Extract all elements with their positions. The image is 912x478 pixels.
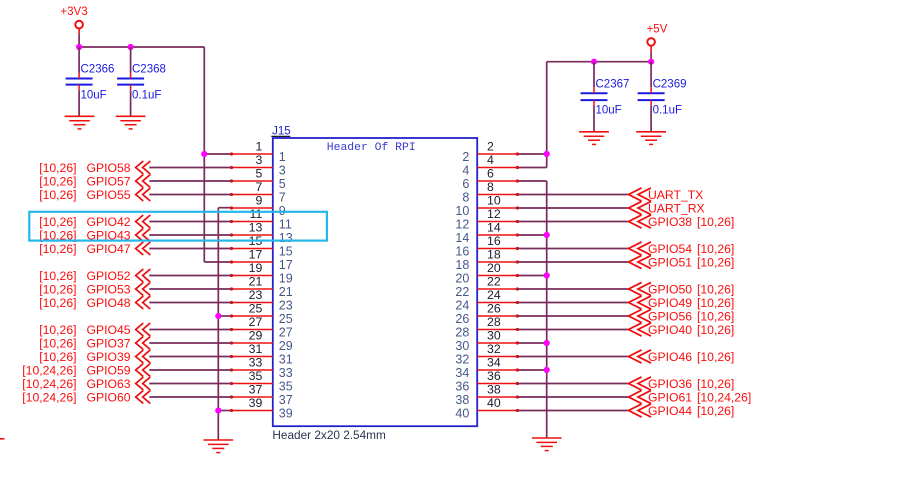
wire net GPIO39 to pin 31 (149, 356, 231, 358)
off-page connector UART_RX (right) (629, 201, 705, 215)
off-page connector GPIO44 (right) (629, 404, 735, 418)
off-page connector GPIO59 (left) (22, 363, 150, 377)
svg-text:13: 13 (279, 231, 293, 245)
svg-text:19: 19 (249, 261, 263, 275)
wire net GPIO45 to pin 27 (149, 329, 231, 331)
pin 31 (left stub) (230, 342, 293, 366)
pin 14 (right stub) (455, 221, 519, 245)
wire right GND bus vertical (546, 181, 548, 438)
wire net GPIO49 to pin 24 (517, 302, 628, 304)
off-page connector GPIO42 (left) (39, 215, 150, 229)
pin 12 (right stub) (455, 207, 519, 231)
wire 3V3 to pin 1 (204, 153, 231, 155)
svg-text:22: 22 (487, 275, 501, 289)
off-page connector GPIO56 (right) (629, 309, 735, 323)
svg-text:GPIO36: GPIO36 (648, 377, 692, 391)
wire net GPIO47 to pin 15 (149, 248, 231, 250)
wire net GPIO50 to pin 22 (517, 288, 628, 290)
svg-text:C2369: C2369 (653, 78, 687, 90)
pin 13 (left stub) (230, 221, 293, 245)
svg-text:GPIO45: GPIO45 (87, 323, 131, 337)
wire net GPIO53 to pin 21 (149, 288, 231, 290)
svg-text:[10,26]: [10,26] (39, 161, 76, 175)
svg-text:6: 6 (487, 167, 494, 181)
off-page connector GPIO46 (right) (629, 350, 735, 364)
svg-text:0.1uF: 0.1uF (653, 104, 682, 116)
svg-text:[10,26]: [10,26] (39, 350, 76, 364)
off-page connector GPIO45 (left) (39, 323, 150, 337)
svg-text:[10,26]: [10,26] (39, 336, 76, 350)
pin 15 (left stub) (230, 234, 293, 258)
connector J15 body (273, 138, 477, 426)
svg-text:0.1uF: 0.1uF (132, 90, 161, 102)
svg-text:GPIO58: GPIO58 (87, 161, 131, 175)
svg-text:[10,26]: [10,26] (697, 242, 734, 256)
svg-text:26: 26 (455, 312, 469, 326)
off-page connector GPIO61 (right) (629, 390, 752, 404)
svg-text:[10,26]: [10,26] (697, 282, 734, 296)
power symbol +5V (647, 24, 668, 53)
svg-text:[10,26]: [10,26] (39, 215, 76, 229)
junction 5V at pin 2 (544, 151, 550, 157)
wire left GND bus vertical (217, 208, 219, 440)
svg-text:4: 4 (487, 153, 494, 167)
svg-text:10uF: 10uF (81, 90, 107, 102)
svg-text:[10,26]: [10,26] (39, 323, 76, 337)
pin 17 (left stub) (230, 248, 293, 272)
svg-text:[10,26]: [10,26] (697, 215, 734, 229)
value Header 2x20 2.54mm (272, 428, 386, 442)
svg-text:GPIO49: GPIO49 (648, 296, 692, 310)
svg-text:19: 19 (279, 272, 293, 286)
pin 5 (left stub) (230, 167, 286, 191)
svg-text:10: 10 (455, 204, 469, 218)
svg-text:31: 31 (249, 342, 263, 356)
svg-text:12: 12 (455, 218, 469, 232)
pin 26 (right stub) (455, 302, 519, 326)
svg-text:GPIO57: GPIO57 (87, 174, 131, 188)
svg-text:GPIO48: GPIO48 (87, 296, 131, 310)
off-page connector GPIO36 (right) (629, 377, 735, 391)
pin 7 (left stub) (230, 180, 286, 204)
off-page connector GPIO55 (left) (39, 188, 150, 202)
wire net GPIO42 to pin 11 (149, 221, 231, 223)
svg-text:11: 11 (250, 207, 263, 221)
svg-text:8: 8 (462, 191, 469, 205)
svg-text:GPIO44: GPIO44 (648, 404, 692, 418)
ground right bus bottom (532, 438, 562, 451)
off-page connector GPIO60 (left) (22, 390, 150, 404)
svg-text:16: 16 (455, 245, 469, 259)
off-page connector GPIO58 (left) (39, 161, 150, 175)
pin 30 (right stub) (455, 329, 519, 353)
pin 27 (left stub) (230, 315, 293, 339)
wire net GPIO46 to pin 32 (517, 356, 628, 358)
svg-text:C2368: C2368 (132, 64, 166, 76)
svg-text:GPIO46: GPIO46 (648, 350, 692, 364)
svg-text:GPIO61: GPIO61 (648, 390, 692, 404)
junction right GND at pin 34 (544, 367, 550, 373)
pin 38 (right stub) (455, 383, 519, 407)
svg-text:13: 13 (249, 221, 263, 235)
svg-text:28: 28 (487, 315, 501, 329)
junction right GND at pin 30 (544, 340, 550, 346)
wire net GPIO63 to pin 35 (149, 383, 231, 385)
svg-text:20: 20 (487, 261, 501, 275)
wire right GND to pin 6 (517, 180, 546, 182)
junction right GND at pin 20 (544, 272, 550, 278)
svg-text:UART_RX: UART_RX (648, 201, 705, 215)
wire left GND to pin 25 (218, 315, 231, 317)
svg-text:[10,26]: [10,26] (39, 188, 76, 202)
ground below C2368 (116, 116, 146, 129)
svg-text:GPIO59: GPIO59 (87, 363, 131, 377)
svg-text:Header 2x20 2.54mm: Header 2x20 2.54mm (272, 428, 386, 442)
svg-text:22: 22 (455, 285, 469, 299)
svg-text:27: 27 (279, 326, 293, 340)
pin 16 (right stub) (455, 234, 519, 258)
wire net GPIO36 to pin 36 (517, 383, 628, 385)
svg-text:14: 14 (487, 221, 501, 235)
svg-text:[10,26]: [10,26] (697, 255, 734, 269)
pin 22 (right stub) (455, 275, 519, 299)
svg-text:GPIO50: GPIO50 (648, 282, 692, 296)
svg-text:39: 39 (279, 407, 293, 421)
svg-text:36: 36 (455, 380, 469, 394)
svg-text:5: 5 (255, 167, 262, 181)
pin 36 (right stub) (455, 369, 519, 393)
svg-text:4: 4 (462, 164, 469, 178)
red dash at left edge (0, 438, 5, 440)
svg-text:C2366: C2366 (81, 64, 115, 76)
svg-text:24: 24 (487, 288, 501, 302)
svg-text:+3V3: +3V3 (60, 6, 87, 18)
capacitor C2367 (581, 62, 630, 132)
ground below C2367 (579, 132, 609, 145)
off-page connector GPIO50 (right) (629, 282, 735, 296)
svg-text:C2367: C2367 (596, 78, 630, 90)
svg-text:GPIO55: GPIO55 (87, 188, 131, 202)
junction 3V3 at pin 1 (201, 151, 207, 157)
wire net GPIO55 to pin 7 (149, 194, 231, 196)
svg-text:24: 24 (455, 299, 469, 313)
svg-text:12: 12 (487, 207, 501, 221)
svg-text:GPIO53: GPIO53 (87, 282, 131, 296)
pin 40 (right stub) (455, 396, 519, 420)
svg-text:5: 5 (279, 177, 286, 191)
svg-text:GPIO42: GPIO42 (87, 215, 131, 229)
svg-text:3: 3 (279, 164, 286, 178)
pin 19 (left stub) (230, 261, 293, 285)
pin 18 (right stub) (455, 248, 519, 272)
svg-text:39: 39 (249, 396, 263, 410)
svg-text:[10,24,26]: [10,24,26] (22, 377, 76, 391)
svg-text:[10,26]: [10,26] (697, 377, 734, 391)
off-page connector GPIO49 (right) (629, 296, 735, 310)
off-page connector GPIO53 (left) (39, 282, 150, 296)
svg-text:29: 29 (249, 329, 263, 343)
svg-text:26: 26 (487, 302, 501, 316)
svg-text:1: 1 (279, 150, 286, 164)
svg-text:34: 34 (455, 366, 469, 380)
pin 29 (left stub) (230, 329, 293, 353)
svg-text:17: 17 (249, 248, 263, 262)
junction 3V3 at C2366 (76, 44, 82, 50)
svg-text:35: 35 (279, 380, 293, 394)
svg-text:7: 7 (279, 191, 286, 205)
wire net GPIO59 to pin 33 (149, 369, 231, 371)
svg-text:21: 21 (279, 285, 293, 299)
svg-text:[10,24,26]: [10,24,26] (697, 390, 751, 404)
pin 20 (right stub) (455, 261, 519, 285)
wire net GPIO58 to pin 3 (149, 167, 231, 169)
svg-text:40: 40 (487, 396, 501, 410)
wire net GPIO40 to pin 28 (517, 329, 628, 331)
off-page connector GPIO40 (right) (629, 323, 735, 337)
svg-text:10: 10 (487, 194, 501, 208)
pin 28 (right stub) (455, 315, 519, 339)
off-page connector GPIO51 (right) (629, 255, 735, 269)
off-page connector GPIO37 (left) (39, 336, 150, 350)
svg-text:GPIO39: GPIO39 (87, 350, 131, 364)
pin 37 (left stub) (230, 383, 293, 407)
svg-text:8: 8 (487, 180, 494, 194)
wire net UART_TX to pin 8 (517, 194, 628, 196)
selection highlight box (29, 212, 327, 241)
svg-text:[10,26]: [10,26] (39, 174, 76, 188)
pin 35 (left stub) (230, 369, 293, 393)
wire net GPIO43 to pin 13 (149, 234, 231, 236)
svg-text:[10,26]: [10,26] (697, 296, 734, 310)
svg-text:GPIO38: GPIO38 (648, 215, 692, 229)
svg-text:37: 37 (279, 393, 293, 407)
junction 5V at C2367 (591, 59, 597, 65)
svg-text:[10,26]: [10,26] (697, 323, 734, 337)
wire 5V rail horizontal (547, 61, 651, 63)
ground left bus bottom (203, 440, 233, 453)
svg-text:10uF: 10uF (596, 104, 622, 116)
wire net GPIO52 to pin 19 (149, 275, 231, 277)
svg-text:27: 27 (249, 315, 263, 329)
wire net GPIO38 to pin 12 (517, 221, 628, 223)
wire +3V3 drop (78, 34, 80, 47)
svg-text:6: 6 (462, 177, 469, 191)
off-page connector GPIO54 (right) (629, 242, 735, 256)
wire 5V to pin 4 (517, 167, 546, 169)
junction left GND at pin 39 (215, 407, 221, 413)
pin 21 (left stub) (230, 275, 293, 299)
capacitor C2366 (66, 47, 115, 116)
off-page connector GPIO38 (right) (629, 215, 735, 229)
wire net GPIO56 to pin 26 (517, 315, 628, 317)
off-page connector GPIO63 (left) (22, 377, 150, 391)
wire +5V drop (650, 53, 652, 62)
svg-text:[10,24,26]: [10,24,26] (22, 390, 76, 404)
svg-text:GPIO52: GPIO52 (87, 269, 131, 283)
wire 3V3 trunk vertical (203, 47, 205, 262)
wire 5V to pin 2 (517, 153, 546, 155)
svg-text:40: 40 (455, 407, 469, 421)
wire net GPIO44 to pin 40 (517, 410, 628, 412)
svg-text:31: 31 (279, 353, 293, 367)
pin 2 (right stub) (462, 140, 519, 164)
power symbol +3V3 (60, 6, 87, 34)
svg-text:25: 25 (249, 302, 263, 316)
pin 1 (left stub) (230, 140, 286, 164)
wire right GND to pin 14 (517, 234, 546, 236)
off-page connector GPIO47 (left) (39, 242, 150, 256)
svg-text:[10,26]: [10,26] (39, 269, 76, 283)
ground below C2366 (65, 116, 95, 129)
pin 24 (right stub) (455, 288, 519, 312)
pin 11 (left stub) (230, 207, 292, 231)
wire right GND to pin 30 (517, 342, 546, 344)
svg-text:33: 33 (249, 356, 263, 370)
svg-text:38: 38 (455, 393, 469, 407)
svg-text:11: 11 (279, 218, 292, 232)
svg-text:14: 14 (455, 231, 469, 245)
svg-text:2: 2 (462, 150, 469, 164)
svg-text:+5V: +5V (647, 24, 668, 36)
pin 6 (right stub) (462, 167, 519, 191)
wire net GPIO61 to pin 38 (517, 396, 628, 398)
svg-text:37: 37 (249, 383, 263, 397)
svg-text:UART_TX: UART_TX (648, 188, 703, 202)
off-page connector GPIO57 (left) (39, 174, 150, 188)
svg-text:35: 35 (249, 369, 263, 383)
svg-text:[10,26]: [10,26] (697, 350, 734, 364)
svg-text:18: 18 (487, 248, 501, 262)
svg-text:GPIO51: GPIO51 (648, 255, 692, 269)
capacitor C2369 (638, 62, 687, 132)
wire left GND to pin 39 (218, 410, 231, 412)
junction left GND at pin 25 (215, 313, 221, 319)
pin 8 (right stub) (462, 180, 519, 204)
ground below C2369 (636, 132, 666, 145)
wire net GPIO57 to pin 5 (149, 180, 231, 182)
svg-text:GPIO63: GPIO63 (87, 377, 131, 391)
svg-text:20: 20 (455, 272, 469, 286)
pin 10 (right stub) (455, 194, 519, 218)
svg-text:GPIO40: GPIO40 (648, 323, 692, 337)
svg-text:30: 30 (487, 329, 501, 343)
off-page connector GPIO48 (left) (39, 296, 150, 310)
svg-text:29: 29 (279, 339, 293, 353)
off-page connector UART_TX (right) (629, 188, 704, 202)
svg-text:21: 21 (249, 275, 263, 289)
pin 34 (right stub) (455, 356, 519, 380)
title Header Of RPI (327, 142, 416, 154)
pin 9 (left stub) (230, 194, 286, 218)
svg-text:16: 16 (487, 234, 501, 248)
pin 32 (right stub) (455, 342, 519, 366)
wire net GPIO48 to pin 23 (149, 302, 231, 304)
wire left GND to pin 9 (218, 207, 231, 209)
wire 3V3 rail horizontal (79, 46, 204, 48)
svg-text:[10,26]: [10,26] (697, 404, 734, 418)
svg-text:34: 34 (487, 356, 501, 370)
svg-text:3: 3 (255, 153, 262, 167)
wire net GPIO60 to pin 37 (149, 396, 231, 398)
pin 39 (left stub) (230, 396, 293, 420)
svg-text:[10,26]: [10,26] (39, 242, 76, 256)
svg-text:GPIO37: GPIO37 (87, 336, 131, 350)
svg-text:38: 38 (487, 383, 501, 397)
pin 33 (left stub) (230, 356, 293, 380)
svg-text:2: 2 (487, 140, 494, 154)
svg-text:[10,26]: [10,26] (697, 309, 734, 323)
svg-text:33: 33 (279, 366, 293, 380)
wire 3V3 to pin 17 (204, 261, 231, 263)
pin 23 (left stub) (230, 288, 293, 312)
svg-text:Header Of RPI: Header Of RPI (327, 142, 416, 154)
svg-text:28: 28 (455, 326, 469, 340)
svg-text:17: 17 (279, 258, 293, 272)
svg-text:30: 30 (455, 339, 469, 353)
svg-text:GPIO47: GPIO47 (87, 242, 131, 256)
junction right GND at pin 14 (544, 232, 550, 238)
pin 3 (left stub) (230, 153, 286, 177)
off-page connector GPIO43 (left) (39, 228, 150, 242)
svg-text:32: 32 (487, 342, 501, 356)
wire right GND to pin 34 (517, 369, 546, 371)
svg-text:36: 36 (487, 369, 501, 383)
svg-text:[10,24,26]: [10,24,26] (22, 363, 76, 377)
svg-text:23: 23 (279, 299, 293, 313)
junction 5V at C2369 (648, 59, 654, 65)
svg-text:GPIO56: GPIO56 (648, 309, 692, 323)
wire net GPIO54 to pin 16 (517, 248, 628, 250)
off-page connector GPIO52 (left) (39, 269, 150, 283)
svg-text:9: 9 (255, 194, 262, 208)
junction 3V3 at C2368 (128, 44, 134, 50)
pin 4 (right stub) (462, 153, 519, 177)
refdes J15 (271, 126, 290, 138)
off-page connector GPIO39 (left) (39, 350, 150, 364)
svg-text:GPIO60: GPIO60 (87, 390, 131, 404)
svg-text:[10,26]: [10,26] (39, 296, 76, 310)
svg-text:1: 1 (255, 140, 262, 154)
svg-text:15: 15 (279, 245, 293, 259)
wire 5V trunk vertical (546, 62, 548, 168)
capacitor C2368 (117, 47, 166, 116)
svg-text:7: 7 (255, 180, 262, 194)
svg-text:32: 32 (455, 353, 469, 367)
wire net UART_RX to pin 10 (517, 207, 628, 209)
svg-text:[10,26]: [10,26] (39, 282, 76, 296)
svg-text:25: 25 (279, 312, 293, 326)
wire net GPIO37 to pin 29 (149, 342, 231, 344)
svg-text:23: 23 (249, 288, 263, 302)
wire net GPIO51 to pin 18 (517, 261, 628, 263)
svg-text:GPIO54: GPIO54 (648, 242, 692, 256)
svg-text:18: 18 (455, 258, 469, 272)
pin 25 (left stub) (230, 302, 293, 326)
wire right GND to pin 20 (517, 275, 546, 277)
